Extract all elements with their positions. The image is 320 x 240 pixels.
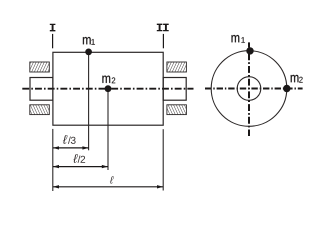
- label l/3: [62, 135, 68, 144]
- dimension l: [53, 186, 163, 188]
- mass m2 dot (end view): [283, 85, 290, 92]
- mass m2 dot (side view): [105, 85, 112, 92]
- label l: [109, 176, 114, 184]
- mass m1 dot (end view): [246, 47, 253, 54]
- mass m1 dot (side view): [85, 49, 92, 56]
- dimension l/3: [53, 147, 89, 149]
- label m2 (side view): [102, 76, 110, 83]
- wire shaft axis centerline (side view): [22, 88, 193, 90]
- wire from m2 down: [107, 89, 109, 170]
- end view horizontal centerline: [205, 88, 303, 90]
- end view outer circle: [211, 51, 287, 127]
- rotor body (side view): [53, 52, 163, 125]
- extension line left: [52, 129, 54, 191]
- bearing right journal: [163, 78, 186, 101]
- section label II: [157, 24, 163, 32]
- section label I: [50, 24, 56, 32]
- label m1 (end view): [232, 35, 240, 42]
- label m1 (side view): [83, 37, 91, 44]
- bearing left journal: [30, 78, 53, 101]
- bearing left bottom hatch: [30, 105, 50, 115]
- extension line right: [162, 129, 164, 190]
- bearing right top hatch: [167, 62, 187, 72]
- label m2 (end view): [291, 75, 299, 82]
- section line I tick: [52, 34, 54, 48]
- wire from m1 down through rotor: [88, 52, 90, 150]
- section line II tick: [162, 34, 164, 48]
- end view vertical centerline: [248, 42, 250, 136]
- bearing left top hatch: [30, 62, 50, 72]
- bearing right bottom hatch: [167, 105, 187, 115]
- label l/2: [73, 154, 79, 163]
- dimension l/2: [53, 166, 108, 168]
- end view inner circle (shaft): [237, 77, 261, 101]
